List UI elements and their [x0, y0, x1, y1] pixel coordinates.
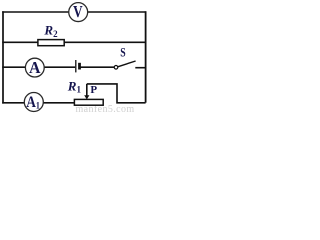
svg-text:S: S	[120, 46, 125, 60]
svg-text:V: V	[73, 2, 83, 21]
svg-text:A: A	[29, 58, 41, 77]
svg-text:P: P	[90, 84, 97, 96]
